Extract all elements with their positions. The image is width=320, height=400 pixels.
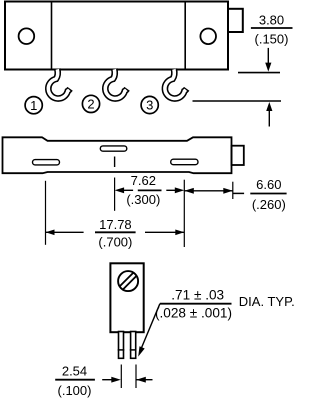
svg-text:(.260): (.260) bbox=[252, 197, 286, 212]
svg-text:(.300): (.300) bbox=[126, 192, 160, 207]
svg-text:3.80: 3.80 bbox=[259, 13, 284, 28]
svg-text:7.62: 7.62 bbox=[131, 173, 156, 188]
svg-text:1: 1 bbox=[30, 98, 37, 113]
svg-text:(.700): (.700) bbox=[98, 235, 132, 250]
svg-text:2.54: 2.54 bbox=[62, 363, 87, 378]
svg-text:6.60: 6.60 bbox=[256, 177, 281, 192]
svg-text:(.150): (.150) bbox=[255, 31, 289, 46]
svg-text:(.028 ± .001): (.028 ± .001) bbox=[155, 305, 232, 320]
svg-text:.71 ± .03: .71 ± .03 bbox=[171, 287, 224, 302]
svg-text:(.100): (.100) bbox=[58, 383, 92, 398]
svg-text:DIA. TYP.: DIA. TYP. bbox=[239, 294, 295, 309]
svg-text:2: 2 bbox=[87, 97, 94, 112]
svg-text:3: 3 bbox=[146, 98, 153, 113]
svg-text:17.78: 17.78 bbox=[99, 217, 132, 232]
